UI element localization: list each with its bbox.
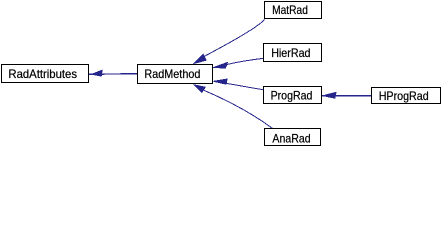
arrowhead at ProgRad — [323, 92, 336, 98]
wire AnaRad to RadMethod — [204, 90, 272, 128]
node MatRad — [265, 2, 322, 19]
arrowhead at RadAttributes — [92, 70, 102, 76]
arrowhead from AnaRad — [194, 85, 205, 93]
wire ProgRad to RadMethod — [219, 82, 263, 90]
node ProgRad — [264, 87, 322, 104]
node RadMethod — [138, 65, 213, 84]
wire MatRad to RadMethod — [204, 20, 265, 57]
node AnaRad — [265, 129, 321, 146]
svg-text:MatRad: MatRad — [272, 3, 308, 17]
svg-text:RadMethod: RadMethod — [144, 67, 200, 81]
wire HierRad to RadMethod — [217, 58, 263, 67]
node HierRad — [264, 44, 322, 62]
node HProgRad — [372, 88, 441, 104]
svg-text:AnaRad: AnaRad — [272, 131, 310, 145]
svg-text:ProgRad: ProgRad — [271, 89, 313, 103]
arrowhead from MatRad — [194, 54, 206, 63]
wire RadMethod to RadAttributes — [89, 73, 137, 76]
svg-text:RadAttributes: RadAttributes — [8, 67, 77, 81]
svg-text:HierRad: HierRad — [271, 46, 310, 60]
wire HProgRad to ProgRad — [322, 95, 371, 97]
arrowhead from ProgRad — [214, 79, 228, 84]
node RadAttributes — [2, 65, 89, 83]
arrowhead from HierRad — [213, 62, 227, 68]
svg-text:HProgRad: HProgRad — [379, 89, 429, 103]
